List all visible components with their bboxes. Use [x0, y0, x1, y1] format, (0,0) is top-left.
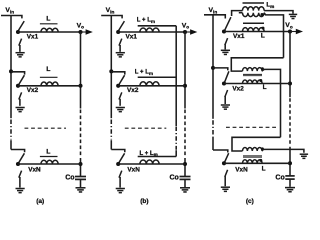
svg-text:L: L	[46, 149, 50, 156]
svg-text:(c): (c)	[246, 198, 254, 205]
svg-text:Co: Co	[170, 175, 179, 182]
winding secondary L phaseN (c)	[243, 160, 263, 163]
bus vertical dash-dot segment (b)	[175, 127, 177, 150]
winding primary phaseN (c)	[243, 148, 263, 151]
wire low-side to ground phaseN (a)	[19, 177, 21, 188]
wire Vin top rail (c)	[204, 15, 225, 19]
inductor L phaseN (a)	[41, 160, 58, 164]
wire Vx2 to Vo rail (c)	[224, 83, 290, 85]
wire Vin rail dash-dot segment (c)	[212, 120, 214, 136]
ground Co (a)	[76, 188, 86, 192]
polarity dot winding secondary phase1 (c)	[261, 13, 264, 16]
wire Vin rail upper segment (c)	[212, 15, 214, 119]
ground switch phase2 (a)	[16, 108, 25, 112]
arrow Vo output (a)	[81, 31, 88, 33]
wire Vo rail lower segment (b)	[184, 158, 186, 176]
svg-text:Vx1: Vx1	[27, 33, 39, 40]
switch low-side arm phase1 (c)	[225, 38, 228, 45]
ground switch phaseN (a)	[16, 189, 25, 193]
figure (c): multiphase buck coupled with transformers	[204, 3, 308, 205]
wire low-side to ground phase2 (b)	[119, 99, 121, 106]
arrow Vo output (b)	[185, 31, 192, 33]
svg-text:Vo: Vo	[182, 22, 190, 29]
ground switch phase2 (c)	[221, 105, 230, 109]
wire winding secondary left stub phase1 (c)	[239, 12, 243, 14]
node Vo rail phaseN junction (a)	[79, 162, 83, 166]
wire VxN to Vo rail (b)	[118, 163, 185, 165]
switch high-side arm phaseN (c)	[224, 153, 229, 163]
node Vx2 (c)	[222, 81, 226, 85]
svg-text:Vo: Vo	[77, 22, 85, 29]
ground switch phaseN (c)	[221, 187, 230, 191]
polarity dot winding primary phase2 (c)	[261, 67, 264, 70]
wire low-side to ground phaseN (b)	[119, 177, 121, 188]
wire Vx1 to Vo (c)	[224, 31, 290, 33]
switch low-side arm phase1 (a)	[19, 39, 22, 46]
svg-text:Vin: Vin	[209, 7, 218, 14]
switch low-side arm phase1 (b)	[119, 39, 122, 46]
wire VxN to Vo rail (a)	[18, 163, 81, 165]
wire winding secondary to bus corner (c)	[264, 13, 283, 58]
wire winding Lm left lead phase1 (c)	[232, 11, 243, 16]
svg-text:L + Lm: L + Lm	[135, 70, 153, 76]
core bar inductor phase1 and bus corner (b)	[138, 25, 177, 27]
node Vx1 (b)	[116, 30, 120, 34]
switch high-side arm phase1 (b)	[118, 21, 125, 32]
svg-text:VxN: VxN	[28, 167, 41, 174]
ground switch phaseN (b)	[116, 189, 125, 193]
node Vx2 (b)	[116, 84, 120, 88]
dashed continuation line (b)	[125, 127, 167, 129]
figure (a): uncoupled multiphase buck	[1, 7, 93, 205]
capacitor Co (b)	[180, 176, 191, 178]
wire Vin rail dash-dot segment (b)	[110, 120, 112, 140]
wire Vo rail dashed segment (c)	[289, 98, 291, 146]
wire Vo rail upper segment (a)	[80, 32, 82, 109]
winding secondary phase1 (c)	[243, 13, 265, 17]
wire Vin rail lower segment (b)	[110, 140, 112, 149]
wire winding primary to bus2 corner (c)	[262, 69, 281, 137]
wire Vx1 to Vo (b)	[118, 31, 185, 33]
node Vo rail phaseN junction (b)	[183, 162, 187, 166]
capacitor Co (a)	[75, 176, 86, 178]
wire Vin rail dash-dot segment (a)	[10, 120, 12, 140]
inductor L phase2 (a)	[41, 82, 58, 86]
svg-text:(b): (b)	[140, 198, 148, 205]
switch high-side arm phase2 (c)	[224, 71, 229, 83]
core bar inductor phase2 (a)	[40, 76, 58, 78]
wire transformer link bus1 to winding phase2 (c)	[231, 58, 283, 71]
wire Co to ground (c)	[289, 179, 291, 187]
node VxN (a)	[16, 162, 20, 166]
node Vo rail phase2 junction (b)	[183, 84, 187, 88]
dashed continuation line (c)	[226, 126, 276, 128]
wire winding Lm right lead to ground (c)	[264, 11, 293, 14]
wire Vin branch phase2 (a)	[11, 72, 25, 75]
svg-text:Vo: Vo	[285, 22, 293, 29]
polarity dot winding primary phaseN (c)	[261, 147, 264, 150]
svg-text:Vin: Vin	[5, 7, 14, 14]
wire low-side to ground phase2 (c)	[224, 96, 226, 104]
node Vo (a)	[78, 30, 82, 34]
svg-text:L: L	[46, 16, 50, 23]
ground winding primary phaseN (c)	[300, 154, 308, 158]
switch high-side arm phase2 (b)	[118, 75, 124, 85]
wire Co to ground (b)	[184, 179, 186, 187]
wire Vx2 to Vo rail (b)	[118, 85, 185, 87]
wire winding primary to right ground phaseN (c)	[262, 149, 304, 152]
svg-text:Co: Co	[65, 175, 74, 182]
svg-text:L: L	[261, 33, 265, 40]
svg-text:L + Lm: L + Lm	[137, 17, 155, 23]
figure (b): multiphase buck with L+Lm and common bar	[101, 7, 197, 205]
wire Vo rail upper segment (b)	[184, 32, 186, 109]
inductor L+Lm phase2 (b)	[140, 82, 159, 86]
core bar above winding Lm phase1 (c)	[243, 2, 265, 4]
node Vo rail phaseN junction (c)	[288, 161, 292, 165]
node Vo rail phase2 junction (c)	[288, 82, 292, 86]
switch high-side arm phase1 (c)	[224, 17, 231, 31]
wire Vo rail dashed segment (b)	[184, 110, 186, 158]
svg-text:L: L	[46, 66, 50, 73]
inductor L+Lm phaseN (b)	[140, 160, 159, 164]
winding secondary L phase2 (c)	[243, 80, 263, 84]
svg-text:Vin: Vin	[106, 7, 115, 14]
wire Vin branch phaseN (b)	[111, 150, 125, 153]
switch high-side arm phaseN (a)	[18, 153, 24, 163]
node VxN (b)	[116, 162, 120, 166]
wire Vin rail lower segment (a)	[10, 140, 12, 149]
node Vin rail junction phase2 (a)	[9, 69, 13, 73]
inductor L+Lm phase1 (b)	[140, 28, 159, 32]
ground winding Lm phase1 (c)	[289, 14, 297, 18]
wire Vin rail upper segment (b)	[110, 16, 112, 119]
core bar inductor phase1 (a)	[40, 23, 58, 25]
node Vo (b)	[183, 30, 187, 34]
ground Co (b)	[180, 188, 190, 192]
switch high-side arm phase2 (a)	[18, 75, 24, 85]
ground Co (c)	[285, 188, 295, 192]
wire low-side to ground phase1 (a)	[19, 45, 21, 52]
wire Vin branch phase2 (b)	[111, 72, 125, 75]
svg-text:Vx2: Vx2	[27, 87, 39, 94]
wire Vin rail lower segment (c)	[212, 137, 214, 150]
svg-text:Vx2: Vx2	[232, 85, 244, 92]
wire Vin rail upper segment (a)	[10, 16, 12, 119]
wire Vx2 to Vo rail (a)	[18, 85, 81, 87]
ground switch phase1 (c)	[221, 50, 230, 54]
wire Vo rail dashed segment (a)	[80, 110, 82, 158]
node Vo rail phase2 junction (a)	[79, 84, 83, 88]
ground switch phase2 (b)	[116, 108, 125, 112]
node Vin rail junction phase2 (c)	[211, 66, 215, 70]
svg-text:VxN: VxN	[235, 167, 248, 174]
svg-text:Vx1: Vx1	[233, 33, 245, 40]
dashed continuation line (a)	[25, 127, 67, 129]
svg-text:(a): (a)	[36, 198, 44, 205]
svg-text:L: L	[262, 166, 266, 173]
wire Vo rail lower segment (c)	[289, 147, 291, 177]
core bar transformer phaseN (c)	[243, 155, 262, 157]
capacitor Co (c)	[285, 175, 294, 177]
ground switch phase1 (b)	[116, 53, 125, 57]
node Vo (c)	[288, 29, 292, 33]
wire Vin branch phaseN (a)	[11, 150, 25, 153]
core bar transformer phase2 (c)	[243, 73, 262, 75]
wire Vo rail upper segment (c)	[289, 32, 291, 98]
node VxN (c)	[222, 161, 226, 165]
winding primary phase2 (c)	[243, 68, 263, 72]
wire Vin branch phaseN (c)	[213, 150, 228, 153]
wire low-side to ground phaseN (c)	[224, 176, 226, 186]
node Vin rail junction phase2 (b)	[109, 69, 113, 73]
node Vx1 (a)	[16, 30, 20, 34]
core bar inductor phase2 joins bus (b)	[138, 76, 177, 78]
arrow Vo output (c)	[290, 31, 297, 33]
ground switch phase1 (a)	[16, 53, 25, 57]
wire low-side to ground phase1 (c)	[224, 45, 226, 50]
wire Vo rail lower segment (a)	[80, 158, 82, 176]
switch low-side arm phase2 (a)	[19, 92, 22, 99]
node Vx2 (a)	[16, 84, 20, 88]
core bar inductor L phase1 (c)	[243, 22, 264, 24]
switch high-side arm phase1 (a)	[18, 21, 25, 32]
switch high-side arm phaseN (b)	[118, 153, 124, 163]
winding Lm top phase1 (c)	[243, 7, 265, 11]
node Vx1 (c)	[222, 29, 226, 33]
switch low-side arm phase2 (c)	[225, 90, 228, 97]
inductor L phase1 (c)	[243, 28, 265, 32]
svg-text:Co: Co	[275, 174, 284, 181]
inductor L phase1 (a)	[41, 28, 58, 32]
switch low-side arm phaseN (a)	[19, 171, 22, 178]
bus vertical lower segment (b)	[175, 150, 177, 156]
svg-text:Vx2: Vx2	[127, 87, 139, 94]
wire Vx1 to Vo (a)	[18, 31, 81, 33]
svg-text:VxN: VxN	[127, 167, 140, 174]
core bar inductor phaseN joins bus corner (b)	[138, 156, 177, 158]
svg-text:L: L	[263, 84, 267, 91]
svg-text:Vx1: Vx1	[126, 33, 138, 40]
switch low-side arm phaseN (c)	[225, 170, 228, 177]
svg-text:Lm: Lm	[266, 3, 274, 9]
wire Vin top rail (b)	[101, 16, 122, 19]
wire VxN to Vo rail (c)	[224, 162, 290, 164]
polarity dot winding secondary phase2 (c)	[259, 79, 262, 82]
wire low-side to ground phase2 (a)	[19, 99, 21, 106]
wire Co to ground (a)	[80, 179, 82, 187]
switch low-side arm phaseN (b)	[119, 171, 122, 178]
bus vertical upper segment (b)	[175, 26, 177, 126]
polarity dot inductor L phase1 (c)	[262, 27, 265, 30]
wire transformer link bus2 to winding phaseN (c)	[232, 137, 281, 151]
wire Vin branch phase2 (c)	[213, 68, 228, 71]
core bar inductor phaseN (a)	[40, 156, 58, 158]
switch low-side arm phase2 (b)	[119, 92, 122, 99]
wire low-side to ground phase1 (b)	[119, 45, 121, 52]
wire Vin top rail (a)	[1, 16, 22, 19]
polarity dot winding secondary phaseN (c)	[259, 159, 262, 162]
